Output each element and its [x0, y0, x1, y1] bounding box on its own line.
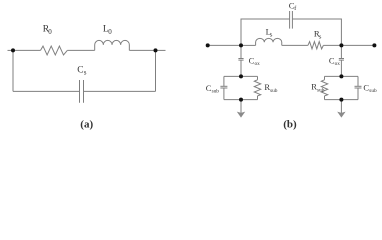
- node A: (a) left: [11, 48, 15, 52]
- label Cs: [77, 66, 87, 77]
- node: (b) right box bottom: [339, 98, 343, 102]
- label Rs: [314, 28, 322, 40]
- wire: (b) left box bottom: [224, 99, 258, 101]
- svg-text:0: 0: [108, 28, 112, 36]
- wire: (b) left ground stem: [240, 100, 242, 113]
- capacitor Csub right plates: [355, 85, 362, 87]
- resistor Rsub right: [321, 80, 327, 96]
- svg-text:sub: sub: [317, 87, 325, 93]
- wire: (b) right box left upper: [324, 76, 326, 79]
- svg-text:C: C: [77, 66, 83, 76]
- wire: (b) left shunt lower: [240, 60, 242, 76]
- node: (b) left internal: [239, 43, 243, 47]
- capacitor Csub left plates: [220, 85, 227, 87]
- label Rsub right: [311, 82, 324, 94]
- wire: (b) main line left terminal to node: [208, 44, 241, 46]
- label Cox left: [249, 55, 261, 67]
- wire: (a) top from left node to resistor: [13, 49, 41, 51]
- wire: (b) top branch right half: [292, 19, 341, 45]
- capacitor Cox left plates: [238, 58, 243, 60]
- svg-text:sub: sub: [212, 89, 220, 95]
- wire: (b) right box bottom: [325, 99, 359, 101]
- node B: (a) right: [154, 48, 158, 52]
- svg-text:ox: ox: [335, 61, 341, 67]
- wire: (a) right vertical: [155, 50, 157, 91]
- wire: (b) left box right lower: [257, 96, 259, 100]
- label L0: [103, 25, 112, 36]
- svg-text:(a): (a): [80, 119, 93, 131]
- wire: (b) right ground stem: [340, 100, 342, 113]
- svg-text:s: s: [84, 68, 87, 76]
- svg-text:(b): (b): [283, 119, 297, 131]
- label Csub right: [363, 83, 377, 95]
- wire: (b) right box right upper: [357, 76, 359, 86]
- resistor Rsub left: [254, 80, 260, 96]
- wire: (b) right box top: [325, 75, 359, 77]
- label Cf: [289, 0, 297, 12]
- wire: (a) from L0 to right node: [129, 49, 155, 51]
- wire: (a) bottom capacitor to right: [84, 90, 156, 92]
- wire: (b) right box right lower: [357, 88, 359, 100]
- node: (b) left box bottom: [239, 98, 243, 102]
- wire: (b) right shunt lower: [340, 60, 342, 76]
- node: (b) left box top: [239, 74, 243, 78]
- inductor L0: [95, 40, 130, 50]
- svg-text:0: 0: [48, 28, 52, 36]
- wire: (b) left shunt upper: [240, 45, 242, 58]
- label R0: [43, 24, 52, 35]
- wire: (b) right box left lower: [324, 96, 326, 100]
- wire: (b) left box left upper: [223, 76, 225, 86]
- node: (b) right terminal: [372, 43, 376, 47]
- capacitor Cf plates: [289, 11, 291, 29]
- wire: (a) between R0 and L0: [67, 49, 94, 51]
- wire: (a) bottom left to capacitor: [13, 90, 80, 92]
- wire: (b) resistor to right node and terminal: [323, 44, 374, 46]
- node: (b) right box top: [339, 74, 343, 78]
- wire: (a) left vertical: [12, 50, 14, 91]
- label Csub left: [206, 83, 220, 95]
- label Rsub left: [264, 82, 277, 94]
- svg-text:sub: sub: [369, 88, 377, 94]
- wire: (b) left box top: [224, 75, 258, 77]
- wire: (b) right shunt upper: [340, 45, 342, 58]
- ground right: [337, 112, 345, 118]
- wire: (b) top branch left half: [241, 19, 290, 45]
- ground left: [237, 112, 245, 118]
- resistor Rs: [308, 42, 324, 49]
- wire: (b) left box right upper: [257, 76, 259, 79]
- svg-text:sub: sub: [270, 88, 278, 94]
- wire: (a) right stub: [156, 49, 166, 51]
- capacitor Cox right plates: [339, 58, 344, 60]
- capacitor Cs plates: [79, 80, 81, 103]
- node: (b) left terminal: [206, 43, 210, 47]
- inductor Ls: [256, 38, 282, 45]
- wire: (b) inductor to resistor: [282, 44, 308, 46]
- wire: (a) left stub: [8, 49, 14, 51]
- resistor R0: [41, 46, 68, 55]
- label Cox right: [329, 55, 340, 67]
- svg-text:ox: ox: [255, 61, 261, 67]
- label Ls: [266, 26, 273, 38]
- wire: (b) node to inductor: [241, 44, 256, 46]
- node: (b) right internal: [339, 43, 343, 47]
- wire: (b) left box left lower: [223, 88, 225, 100]
